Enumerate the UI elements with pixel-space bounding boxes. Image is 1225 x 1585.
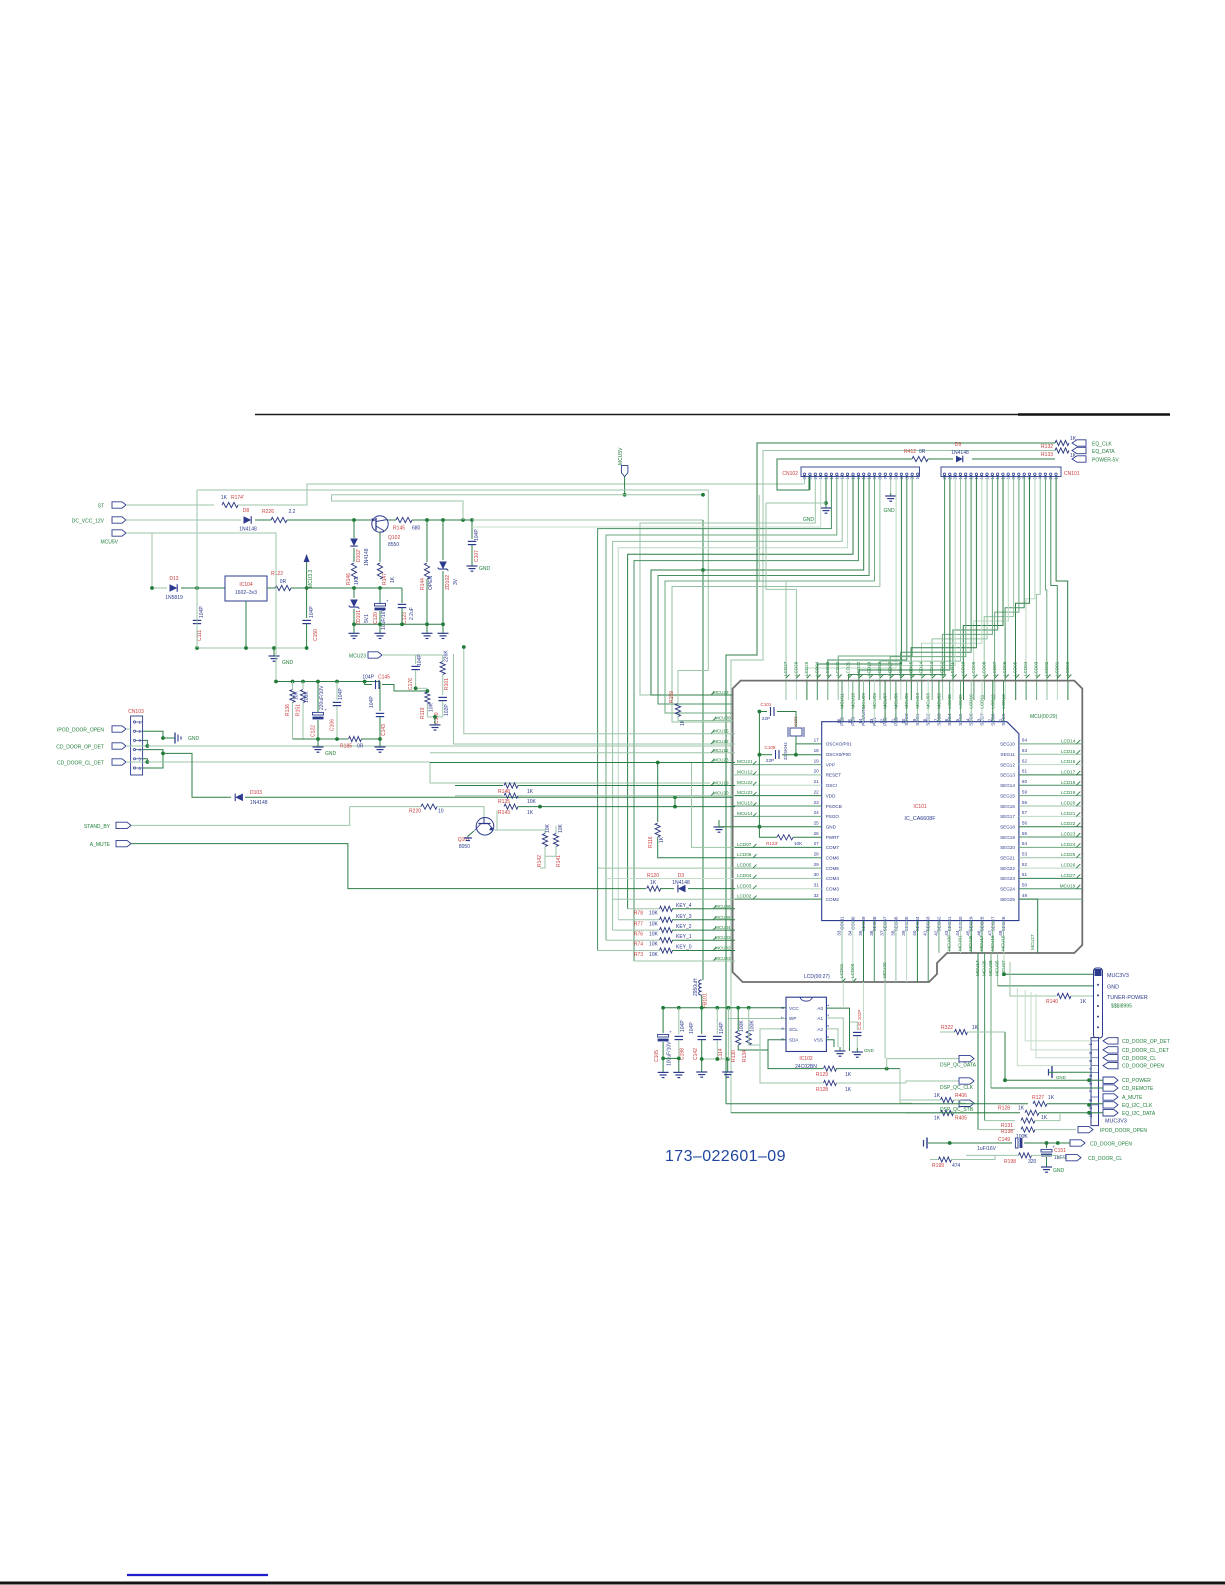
svg-text:R138: R138	[1001, 1129, 1013, 1135]
svg-text:26: 26	[814, 831, 820, 836]
port ST	[112, 502, 126, 508]
capacitor C142 104P	[701, 1008, 703, 1034]
svg-text:57: 57	[1022, 810, 1028, 815]
svg-text:IC101: IC101	[913, 804, 927, 810]
capacitor C108 22P	[759, 754, 772, 756]
svg-text:MCU11: MCU11	[840, 693, 845, 709]
svg-text:LCD10: LCD10	[961, 661, 966, 676]
svg-text:LCD24: LCD24	[1061, 842, 1076, 847]
connector CD header	[1091, 1038, 1099, 1126]
wire CN101 pin22 cascade	[849, 477, 945, 680]
svg-text:10: 10	[901, 718, 906, 724]
resistor R185 0R row	[293, 738, 349, 740]
ground row under C105 C198	[663, 1057, 679, 1059]
svg-text:14: 14	[858, 718, 863, 724]
wire CN102 pin3 to LCD column	[828, 477, 907, 680]
svg-text:25: 25	[814, 821, 820, 826]
svg-text:C108: C108	[765, 745, 776, 750]
svg-text:30: 30	[814, 872, 820, 877]
ground at C122 row	[317, 739, 319, 747]
svg-text:R116: R116	[648, 836, 654, 848]
wire EQ_DATA long run	[731, 451, 1055, 1113]
svg-text:37: 37	[880, 930, 885, 936]
svg-text:CD_DOOR_CL_DET: CD_DOOR_CL_DET	[57, 761, 104, 767]
pin 49 SEG25 wire to MCU27	[1019, 899, 1038, 953]
capacitor C111 104P	[196, 588, 198, 618]
resistor R174 1K	[222, 502, 238, 507]
svg-text:LCD15: LCD15	[1061, 749, 1076, 754]
svg-text:SEG17: SEG17	[1000, 814, 1015, 819]
svg-text:DC_VCC_12V: DC_VCC_12V	[72, 519, 105, 525]
svg-text:COM3: COM3	[826, 887, 840, 892]
wire CN101 pin15 cascade	[922, 477, 982, 680]
svg-text:MCU23: MCU23	[737, 790, 753, 795]
IC104 ground pin wire	[245, 601, 247, 648]
wire CN103 to D103	[163, 753, 231, 797]
svg-text:A0: A0	[817, 1006, 823, 1011]
svg-text:C122: C122	[311, 725, 317, 737]
capacitor C101 22P	[759, 711, 767, 713]
svg-text:32.5KHz: 32.5KHz	[783, 742, 788, 760]
svg-text:MCU21: MCU21	[737, 759, 753, 764]
svg-text:1K: 1K	[527, 789, 534, 795]
svg-text:R74: R74	[634, 942, 643, 948]
resistor R128 1K eeprom	[760, 1045, 823, 1083]
wire CN102 pin16 to key column	[606, 477, 837, 940]
svg-text:R136: R136	[285, 704, 291, 716]
port IPOD_DOOR_OPEN right	[1078, 1126, 1093, 1132]
wire CN102 pin5 to LCD column	[807, 477, 896, 680]
svg-text:10K: 10K	[794, 841, 803, 846]
svg-text:MCU08: MCU08	[872, 693, 877, 709]
svg-text:LCD17: LCD17	[1061, 769, 1076, 774]
resistor R143 1K row	[504, 804, 518, 809]
LCD net labels above MCU	[786, 675, 790, 679]
svg-text:LCD23: LCD23	[825, 661, 830, 676]
capacitor C149 1uF/16V	[963, 1142, 1012, 1144]
svg-text:MUC3V3: MUC3V3	[1105, 1119, 1127, 1125]
wire POWER-5V to CN102	[777, 459, 912, 490]
zener ZD102 3V	[442, 520, 444, 560]
svg-text:47: 47	[987, 930, 992, 936]
port IPOD_DOOR_OPEN	[112, 726, 126, 732]
svg-text:34: 34	[847, 930, 852, 936]
svg-text:MCU22: MCU22	[737, 780, 753, 785]
diode D102 1N4148 vertical	[353, 520, 355, 538]
svg-text:GND: GND	[883, 508, 895, 514]
svg-text:KEY_2: KEY_2	[676, 924, 692, 930]
svg-text:LCD01: LCD01	[1054, 661, 1059, 676]
net labels MCU19 MCU20	[711, 782, 715, 786]
svg-text:LCD00: LCD00	[1065, 661, 1070, 676]
svg-text:MCU20: MCU20	[882, 962, 887, 978]
svg-text:GND: GND	[1056, 1075, 1066, 1080]
svg-text:SEG21: SEG21	[1000, 856, 1015, 861]
svg-text:MCU05: MCU05	[995, 960, 1000, 976]
svg-text:40: 40	[912, 930, 917, 936]
LCD columns into MCU box top	[785, 680, 787, 700]
svg-text:22: 22	[814, 789, 820, 794]
svg-text:LCD25: LCD25	[804, 661, 809, 676]
wire STAND_BY run	[131, 807, 421, 826]
svg-text:61: 61	[1022, 769, 1028, 774]
wire CN102 pin19 left	[472, 477, 821, 527]
svg-text:63: 63	[1022, 748, 1028, 753]
svg-text:R185: R185	[340, 744, 352, 750]
svg-text:MCU05: MCU05	[715, 915, 731, 920]
node row MCU5V decoupling	[276, 681, 380, 683]
VCC node row at EEPROM	[663, 1007, 786, 1009]
svg-text:A_MUTE: A_MUTE	[1122, 1095, 1143, 1101]
svg-text:LCD18: LCD18	[877, 661, 882, 676]
wire MCU bottom column	[1003, 953, 1005, 974]
wire CN101 pin11 cascade	[963, 477, 1003, 680]
wire TUNER-POWER row via R140	[1010, 962, 1056, 996]
svg-text:35: 35	[858, 930, 863, 936]
svg-text:LCD14: LCD14	[1061, 738, 1076, 743]
svg-text:CD_DOOR_CL: CD_DOOR_CL	[1088, 1156, 1122, 1162]
resistor R140 1K	[1057, 993, 1071, 998]
svg-text:10K: 10K	[294, 690, 300, 700]
wire A_MUTE run	[131, 844, 646, 889]
top horizontal rule	[255, 414, 1170, 416]
wire CN102 pin10 drop	[658, 477, 869, 704]
svg-text:2.2uF: 2.2uF	[409, 607, 415, 620]
svg-text:MCU17: MCU17	[975, 960, 980, 976]
svg-text:KEY_1: KEY_1	[676, 934, 692, 940]
svg-text:GND: GND	[1053, 1168, 1065, 1174]
svg-text:LCD16: LCD16	[898, 661, 903, 676]
resistor R159 1K vertical	[678, 671, 708, 704]
svg-text:ST: ST	[98, 504, 104, 510]
svg-text:10: 10	[438, 809, 444, 815]
svg-text:CN102: CN102	[782, 471, 798, 477]
ground at Q101 emitter	[468, 831, 474, 838]
wire R220 to Q101 base	[437, 807, 484, 818]
resistor R136 10K vertical	[292, 682, 294, 690]
CN101 pins with numbers	[943, 473, 945, 475]
wire CN102 pin22 top-left run	[804, 477, 806, 484]
svg-text:R73: R73	[634, 952, 643, 958]
capacitor C176 104P vertical	[415, 655, 417, 664]
svg-text:VDD: VDD	[826, 793, 836, 798]
ground at CN102 pin17	[890, 477, 892, 493]
svg-text:10uF/16V: 10uF/16V	[381, 608, 387, 630]
capacitor C143 104P	[379, 682, 381, 712]
svg-text:CD_REMOTE: CD_REMOTE	[1122, 1086, 1154, 1092]
svg-text:11: 11	[890, 718, 895, 723]
svg-text:C145: C145	[378, 675, 390, 681]
wire MCU23 row	[382, 654, 443, 656]
ground under C198	[678, 1058, 680, 1072]
svg-text:9: 9	[912, 718, 917, 721]
svg-text:4: 4	[966, 718, 971, 721]
svg-text:LCD10: LCD10	[969, 694, 974, 709]
svg-text:A1: A1	[817, 1016, 823, 1021]
wire CD_REMOTE long	[991, 1087, 1103, 1089]
svg-text:R412: R412	[904, 449, 916, 455]
ground under C114	[727, 1059, 729, 1072]
svg-text:10K: 10K	[649, 942, 659, 948]
svg-text:R144: R144	[420, 578, 426, 590]
ground at IC102	[839, 1047, 841, 1051]
resistor R226 2.2	[255, 519, 271, 521]
diode D9 1N4148	[972, 458, 1055, 460]
svg-text:53: 53	[1022, 852, 1028, 857]
svg-text:R77: R77	[634, 921, 643, 927]
wire rows MCU left mid	[464, 647, 735, 734]
resistor R151 100K vertical	[302, 682, 304, 690]
resistor R130 100K vertical	[737, 1008, 739, 1031]
svg-text:LCD22: LCD22	[1061, 821, 1076, 826]
svg-text:MCU19: MCU19	[713, 781, 729, 786]
svg-text:GND: GND	[479, 566, 491, 572]
svg-text:MCU25: MCU25	[982, 960, 987, 976]
svg-text:CD_POWER: CD_POWER	[1122, 1078, 1151, 1084]
resistor R142 10K vertical	[497, 830, 545, 834]
svg-text:100K: 100K	[750, 1020, 756, 1032]
svg-text:5: 5	[955, 718, 960, 721]
svg-text:LCD20: LCD20	[856, 661, 861, 676]
svg-text:62: 62	[1022, 758, 1028, 763]
svg-text:OSCX0/P00: OSCX0/P00	[826, 752, 851, 757]
svg-text:CD_DOOR_OPEN: CD_DOOR_OPEN	[1122, 1064, 1164, 1070]
mid node row	[307, 587, 402, 589]
svg-text:27: 27	[814, 841, 820, 846]
svg-text:R134: R134	[742, 1050, 748, 1062]
svg-text:7: 7	[933, 718, 938, 721]
svg-text:R140: R140	[1046, 999, 1058, 1005]
svg-text:LCD20: LCD20	[1061, 801, 1076, 806]
svg-text:31: 31	[814, 883, 820, 888]
ground sideways at C149	[926, 1138, 928, 1149]
svg-text:MCU27: MCU27	[1030, 934, 1035, 950]
svg-text:55: 55	[1022, 831, 1028, 836]
svg-text:100K: 100K	[304, 691, 310, 703]
svg-text:45: 45	[966, 930, 971, 936]
svg-text:1602–3v3: 1602–3v3	[235, 590, 257, 596]
svg-text:R199: R199	[932, 1163, 944, 1169]
inductor FB101 2950uH	[699, 980, 702, 995]
svg-text:58: 58	[1022, 800, 1028, 805]
svg-text:1K: 1K	[1080, 999, 1087, 1005]
resistor R116 1K vertical	[657, 763, 659, 823]
wire D102 to R146	[353, 548, 355, 562]
svg-text:SEG16: SEG16	[1000, 804, 1015, 809]
svg-text:23: 23	[814, 800, 820, 805]
wire CN101 pin17 cascade	[901, 477, 971, 680]
ground at CD header pin5	[1056, 1071, 1091, 1073]
wire CN102 pin12 to key column	[634, 477, 858, 961]
svg-text:1N4148: 1N4148	[951, 450, 969, 456]
svg-text:C176: C176	[408, 678, 414, 690]
svg-text:COM4: COM4	[826, 876, 840, 881]
wire MUC3V3 row	[1004, 973, 1093, 975]
svg-text:1N4148: 1N4148	[364, 548, 370, 566]
svg-text:POWER-5V: POWER-5V	[1092, 458, 1119, 464]
svg-text:LCD04: LCD04	[1023, 661, 1028, 676]
diode D103 1N4148	[235, 794, 243, 802]
svg-text:59: 59	[1022, 789, 1028, 794]
wire CN101 pin18 cascade	[890, 477, 966, 680]
svg-text:LCD12: LCD12	[940, 661, 945, 676]
svg-text:LCD05: LCD05	[737, 863, 752, 868]
svg-text:104P: 104P	[474, 529, 480, 541]
svg-text:8050: 8050	[459, 844, 470, 850]
svg-text:LCD07: LCD07	[992, 661, 997, 676]
svg-text:LCD26: LCD26	[793, 661, 798, 676]
svg-text:29: 29	[814, 862, 820, 867]
transistor Q101 8050	[476, 818, 494, 836]
svg-text:+: +	[1024, 1133, 1027, 1138]
svg-text:PSOCB: PSOCB	[826, 804, 842, 809]
svg-text:EQ_CLK: EQ_CLK	[1092, 442, 1112, 448]
svg-text:GND: GND	[325, 751, 337, 757]
wire LCD26 column feed	[766, 503, 796, 680]
svg-text:1K: 1K	[934, 1116, 941, 1122]
capacitor C123 2.2uF	[401, 588, 403, 603]
wire CN101 pin6 cascade	[1016, 477, 1030, 680]
power cluster ground row	[354, 623, 443, 625]
wire CN102 pin20 down to mid nest	[640, 477, 815, 695]
svg-text:10K: 10K	[527, 799, 537, 805]
svg-text:R147: R147	[382, 573, 388, 585]
svg-text:D103: D103	[250, 790, 262, 796]
wire CN102 pin13 to key column	[628, 477, 853, 909]
wire CN102 pin9 drop	[665, 477, 875, 713]
svg-text:42: 42	[933, 930, 938, 936]
wire COM1 column stub down	[842, 982, 844, 1008]
svg-text:LCD24: LCD24	[814, 661, 819, 676]
wires CN103 pins	[126, 728, 131, 730]
connector tuner header	[1094, 968, 1103, 1038]
wire CN101 pin14 cascade	[932, 477, 987, 680]
port EQ_DATA	[1072, 447, 1086, 453]
svg-text:LCD02: LCD02	[1044, 661, 1049, 676]
svg-text:LCD19: LCD19	[867, 661, 872, 676]
svg-text:3V: 3V	[453, 578, 459, 585]
wire EQ_CLK long run	[726, 443, 1055, 1104]
net label MCU23 below keys	[713, 958, 717, 962]
svg-text:SEG19: SEG19	[1000, 835, 1015, 840]
wire CN102 pin21	[809, 477, 811, 490]
svg-text:8: 8	[923, 718, 928, 721]
svg-text:C111: C111	[197, 630, 203, 641]
wires A0 A1 A2 to ground rail	[826, 1008, 849, 1051]
svg-text:33: 33	[837, 930, 842, 936]
svg-text:LCD23: LCD23	[1061, 832, 1076, 837]
svg-text:38: 38	[890, 930, 895, 936]
svg-text:MCU14: MCU14	[737, 811, 753, 816]
svg-text:C105: C105	[654, 1050, 660, 1062]
ground under R144	[426, 624, 428, 633]
svg-text:LCD17: LCD17	[887, 661, 892, 676]
svg-text:LCD01: LCD01	[839, 963, 844, 978]
svg-text:GND: GND	[864, 1048, 874, 1053]
resistor R131 1K	[985, 1120, 1015, 1122]
ground row under C142 C114	[702, 1058, 728, 1060]
svg-text:CN103: CN103	[128, 709, 144, 715]
svg-text:MCU09: MCU09	[861, 693, 866, 709]
svg-text:D8: D8	[243, 508, 250, 514]
ground row under IC104	[197, 647, 307, 649]
svg-text:0R: 0R	[357, 744, 364, 750]
svg-text:46: 46	[977, 930, 982, 936]
svg-text:LCD22: LCD22	[835, 661, 840, 676]
resistor R147 1K vertical	[377, 563, 382, 579]
svg-text:MCU07: MCU07	[883, 693, 888, 709]
bottom-left blue underline	[127, 1574, 268, 1576]
ground at CN102 pin5	[825, 477, 827, 503]
svg-text:RESET: RESET	[826, 773, 842, 778]
svg-text:1K: 1K	[1018, 1106, 1025, 1112]
svg-text:220uF/10V: 220uF/10V	[319, 685, 325, 710]
svg-text:474: 474	[952, 1163, 961, 1169]
capacitor C122 220uF/10V	[317, 682, 319, 713]
svg-text:1N4148: 1N4148	[250, 800, 268, 806]
svg-text:104P: 104P	[362, 675, 374, 681]
svg-text:COM7: COM7	[826, 845, 840, 850]
wire verticals to CD header pins 1-4	[1025, 990, 1091, 1041]
ground under C151	[1046, 1165, 1048, 1167]
capacitor C42 102P	[850, 1022, 858, 1030]
wire D103 to bus	[245, 796, 675, 798]
svg-text:49: 49	[1022, 893, 1028, 898]
resistor R101 226K vertical	[442, 655, 444, 661]
resistor R128 1K bottom	[731, 1112, 1020, 1114]
svg-text:GND: GND	[826, 825, 837, 830]
svg-text:R129: R129	[816, 1072, 828, 1078]
svg-text:60: 60	[1022, 779, 1028, 784]
port DC_VCC_12V	[112, 517, 126, 523]
svg-text:MCU04: MCU04	[715, 925, 731, 930]
svg-text:SEG24: SEG24	[1000, 887, 1015, 892]
svg-text:54: 54	[1022, 841, 1028, 846]
svg-text:LCD13: LCD13	[1001, 694, 1006, 709]
svg-text:D9: D9	[955, 442, 962, 448]
wire CN101 pin7 cascade	[1005, 477, 1024, 680]
svg-text:$$$I8995: $$$I8995	[1111, 1004, 1132, 1010]
wire CN102 pin14 to key column	[618, 477, 847, 920]
svg-text:1K2: 1K2	[354, 576, 360, 585]
svg-text:1K: 1K	[934, 1093, 941, 1099]
svg-text:100uF/10V: 100uF/10V	[667, 1041, 673, 1066]
svg-text:10K: 10K	[649, 910, 659, 916]
svg-text:C150: C150	[313, 629, 319, 641]
svg-text:SDA: SDA	[789, 1038, 799, 1043]
svg-text:LCD27: LCD27	[783, 661, 788, 676]
svg-text:2: 2	[987, 718, 992, 721]
bottom edge labels LCD01 LCD00	[842, 979, 846, 983]
svg-text:A_MUTE: A_MUTE	[90, 842, 111, 848]
svg-text:MCU23: MCU23	[349, 654, 366, 660]
svg-text:VPP: VPP	[826, 762, 835, 767]
svg-text:D13: D13	[169, 576, 178, 582]
svg-text:TUNER-POWER: TUNER-POWER	[1107, 995, 1148, 1001]
page bottom border	[0, 1582, 1225, 1585]
capacitor C145 104P horizontal	[365, 682, 372, 685]
svg-text:1N4148: 1N4148	[239, 527, 257, 533]
IC101 body	[822, 722, 1019, 921]
svg-text:R127: R127	[1032, 1095, 1044, 1101]
svg-text:R322: R322	[941, 1025, 953, 1031]
svg-text:36: 36	[869, 930, 874, 936]
svg-text:C142: C142	[693, 1048, 699, 1060]
svg-text:43: 43	[944, 930, 949, 936]
svg-text:104P: 104P	[369, 696, 375, 708]
ground at CN103	[163, 737, 175, 739]
svg-text:MCU00: MCU00	[715, 716, 731, 721]
